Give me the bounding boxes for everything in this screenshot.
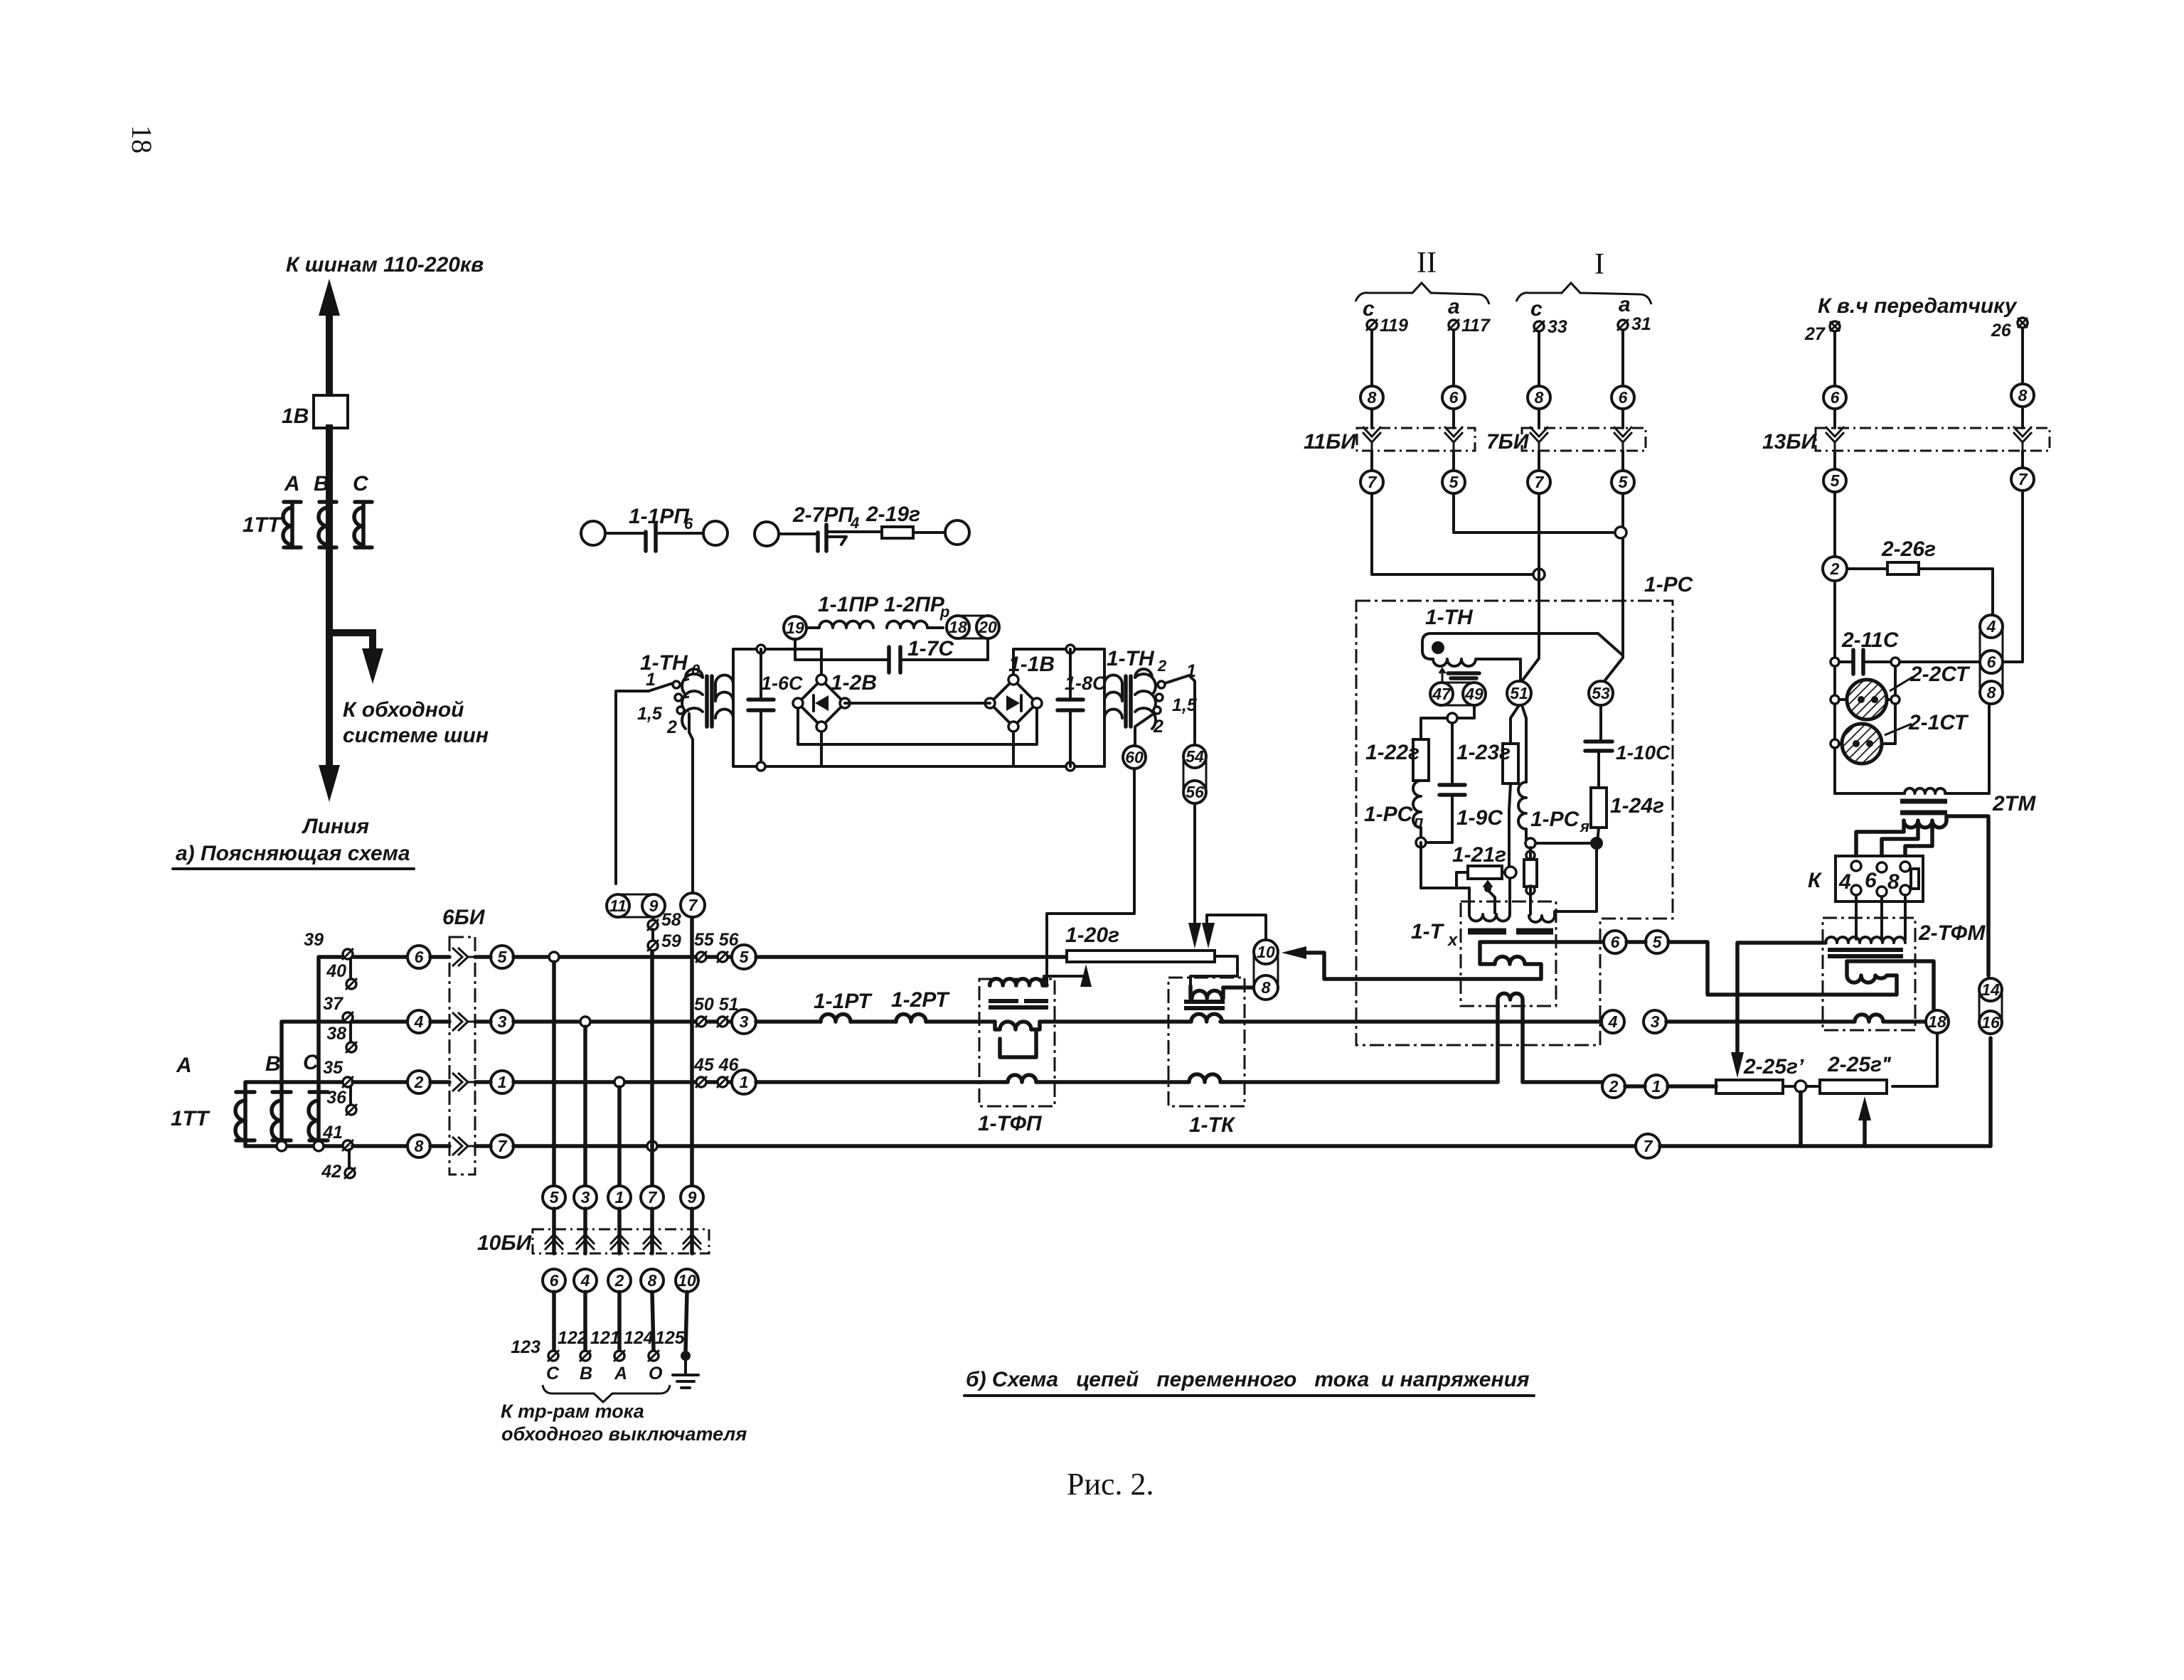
svg-text:124: 124 [624, 1328, 654, 1348]
terminal 7 (col119) [1370, 451, 1373, 471]
node row4 col7 [647, 1141, 657, 1151]
terminal 7 (6БИ row4) [491, 1135, 513, 1157]
wire terminal 6 to cap line [1900, 660, 1980, 663]
wire row3 right [756, 1080, 1602, 1084]
node row2 drop [580, 1017, 590, 1027]
svg-text:8: 8 [648, 1271, 657, 1290]
svg-text:37: 37 [323, 994, 343, 1014]
terminal 4 (10БИ low) [574, 1269, 597, 1292]
svg-text:11БИ: 11БИ [1304, 430, 1357, 454]
resistor 1-23г [1456, 741, 1518, 783]
node row3 drop [614, 1077, 624, 1087]
terminal slashes 45 46 [693, 1055, 740, 1088]
svg-text:2-ТФМ: 2-ТФМ [1918, 921, 1986, 945]
wire row3 left [353, 1080, 407, 1084]
current transformer 1ТТ phase C [354, 502, 372, 547]
svg-text:6: 6 [1619, 388, 1628, 407]
svg-text:122: 122 [558, 1328, 587, 1348]
svg-text:13БИ: 13БИ [1762, 430, 1818, 454]
transformer 2-ТФМ core [1828, 950, 1903, 956]
transformer 1-ТН2 [1104, 649, 1156, 766]
transformer 1-ТФП core [989, 1001, 1048, 1007]
terminal 6 (6БИ row1) [407, 946, 430, 968]
wire 19 stub [794, 639, 797, 660]
wire 2 down left column [1833, 581, 1836, 793]
wire row2 left [353, 1020, 407, 1024]
terminals 4 6 8 [1980, 615, 2003, 704]
wire inner low rail [798, 708, 1037, 744]
svg-text:1-РС: 1-РС [1364, 803, 1414, 826]
svg-text:33: 33 [1548, 317, 1567, 337]
svg-text:123: 123 [511, 1337, 540, 1357]
terminal 60 [1123, 746, 1146, 769]
transformer 1-ТН0 [682, 649, 733, 766]
arrowhead down (Линия) [319, 765, 340, 802]
arrow into terminal 10 [1282, 946, 1306, 959]
svg-text:38: 38 [326, 1024, 346, 1044]
svg-text:54: 54 [1186, 747, 1204, 766]
transformer 1-ТН [1422, 633, 1598, 683]
svg-text:10: 10 [678, 1271, 696, 1290]
svg-text:4: 4 [1986, 617, 1996, 636]
svg-text:5: 5 [1449, 473, 1459, 491]
svg-text:125: 125 [655, 1328, 686, 1348]
svg-text:х: х [1447, 931, 1459, 950]
svg-text:а: а [1448, 295, 1460, 319]
terminal slashes 55 56 [694, 930, 740, 963]
svg-text:49: 49 [1464, 685, 1483, 703]
terminal 8 (10БИ low) [641, 1269, 664, 1292]
wires 10БИ to bottom terminals [554, 1292, 687, 1351]
taps 1 1,5 2 of 1-ТН0 [637, 670, 689, 737]
svg-text:С: С [546, 1364, 560, 1384]
svg-text:О: О [649, 1364, 663, 1384]
svg-text:1-22г: 1-22г [1365, 741, 1419, 764]
svg-text:с: с [1363, 297, 1375, 321]
wire from tap 2 down to 7 [689, 714, 693, 894]
transformer 1-ТФП low winding [1004, 1075, 1040, 1082]
transformer 1-ТК low winding [1186, 1074, 1224, 1082]
terminal 3 (row2R) [1644, 1010, 1666, 1033]
svg-text:8: 8 [1987, 683, 1996, 702]
svg-text:2-26г: 2-26г [1881, 537, 1936, 561]
terminals 18 20 [947, 616, 999, 638]
svg-text:27: 27 [1804, 324, 1826, 344]
inductor 1-1ПР [806, 621, 873, 628]
svg-text:2: 2 [1609, 1077, 1619, 1096]
node left col at cap [1831, 658, 1839, 666]
contact block К [1808, 856, 1923, 901]
svg-text:36: 36 [326, 1088, 347, 1108]
terminal 2 (row3R) [1602, 1075, 1625, 1098]
svg-text:55 56: 55 56 [694, 930, 740, 950]
wire right link [1894, 666, 1897, 744]
terminal slashes 39/40 [304, 930, 357, 990]
current transformer bypass phase C [309, 1092, 328, 1146]
transformer 1-ТК box [1168, 978, 1245, 1106]
wire junction dot left to aux resistor [1538, 842, 1592, 845]
svg-text:6: 6 [1987, 653, 1996, 671]
svg-text:9: 9 [649, 897, 659, 915]
svg-text:1-2В: 1-2В [831, 671, 877, 695]
svg-text:1-7С: 1-7С [907, 637, 954, 660]
svg-text:2: 2 [1830, 560, 1840, 578]
svg-text:2-7РП: 2-7РП [792, 503, 854, 527]
taps 1 1,5 2 of 1-ТН2 [1153, 661, 1198, 737]
terminal 123 [511, 1337, 559, 1361]
svg-text:1-23г: 1-23г [1456, 741, 1511, 764]
wire РСя bottom to junction dot [1526, 839, 1592, 843]
svg-text:5: 5 [550, 1188, 560, 1207]
svg-text:2: 2 [666, 717, 677, 737]
terminal 2 (6БИ row3) [407, 1071, 430, 1093]
terminal 1 (6БИ row3) [491, 1071, 513, 1093]
wire junction dot down to right primary [1555, 850, 1597, 916]
wire 2ТМ secondary leads to К box [1856, 820, 1904, 856]
wire row4R to right corner [1660, 1144, 1991, 1148]
svg-text:51: 51 [1510, 684, 1528, 702]
svg-text:1-ТК: 1-ТК [1189, 1113, 1236, 1137]
wire CT A riser to row3 [245, 1082, 348, 1092]
svg-text:5: 5 [1653, 933, 1663, 951]
terminal 2 [1823, 557, 1847, 581]
svg-text:8: 8 [1262, 978, 1271, 997]
terminal 1 (row3) [732, 1070, 756, 1094]
svg-text:1-РС: 1-РС [1530, 808, 1580, 831]
svg-text:II: II [1417, 247, 1437, 279]
transformer 1-Тх core [1468, 929, 1553, 935]
svg-text:1: 1 [498, 1073, 507, 1091]
terminal 5 (col27) [1833, 451, 1836, 469]
transformer 1-Тх primary right [1529, 916, 1555, 922]
wire row1 (5 to 1-20г) [513, 955, 733, 959]
wire outer bottom rail [733, 765, 1104, 768]
svg-text:56: 56 [1186, 783, 1204, 801]
inductor 1-РСп [1364, 781, 1424, 842]
svg-text:С: С [353, 472, 369, 496]
terminals 14 16 [1979, 978, 2002, 1034]
node junction between 2-25г [1795, 1081, 1806, 1092]
wire CT commons to row4 [245, 1144, 348, 1148]
svg-text:40: 40 [326, 961, 346, 981]
svg-text:1: 1 [615, 1188, 624, 1207]
wire col119 to junction on col33 [1372, 493, 1533, 574]
svg-text:20: 20 [978, 618, 997, 636]
resistor 2-26г [1847, 537, 1993, 614]
svg-text:с: с [1530, 297, 1543, 321]
svg-text:1-ТН: 1-ТН [1107, 647, 1155, 670]
svg-text:5: 5 [740, 948, 750, 966]
arrowhead up [319, 279, 340, 316]
test block 13БИ [1762, 407, 2050, 454]
svg-text:14: 14 [1981, 980, 2000, 999]
terminal 5 (row1) [732, 945, 756, 969]
node junction col33 [1533, 569, 1545, 580]
wire col 117 [1452, 330, 1455, 386]
wire 20 stub [986, 638, 989, 660]
wire between РТ [851, 1020, 896, 1024]
transformer 2-ТФМ low winding on row2 [1823, 1015, 1925, 1022]
svg-text:1ТТ: 1ТТ [171, 1107, 211, 1130]
svg-text:26: 26 [1991, 321, 2012, 341]
svg-text:2-25гʺ: 2-25гʺ [1827, 1053, 1892, 1076]
wire 10БИ column 5 [552, 962, 556, 1186]
svg-text:1-1РП: 1-1РП [629, 505, 690, 528]
wire 1-23г down to 1-21г right terminal [1509, 783, 1511, 867]
wire 51 to РСя [1522, 705, 1526, 782]
wire row2 to 1-1РТ [756, 1020, 821, 1024]
terminal 5 (col117) [1452, 451, 1455, 471]
wire junction down to 1-9С [1451, 723, 1454, 785]
node РСп bottom [1416, 838, 1426, 847]
svg-text:Рис. 2.: Рис. 2. [1067, 1467, 1154, 1502]
wire 1-21г left lead [1456, 872, 1468, 888]
svg-text:1-ТН: 1-ТН [1425, 606, 1474, 629]
svg-text:31: 31 [1631, 314, 1651, 334]
svg-text:I: I [1594, 248, 1604, 281]
svg-text:41: 41 [322, 1123, 343, 1143]
terminals 10 8 [1254, 940, 1278, 1000]
svg-text:1-2ПР: 1-2ПР [884, 593, 945, 616]
terminal 18 [1926, 1010, 1949, 1033]
branch wire to bypass bus [329, 633, 373, 661]
terminal 7 (col26) [2021, 451, 2024, 468]
wire row3 [513, 1080, 732, 1084]
svg-text:б) Схема цепей переменного: б) Схема цепей переменного тока и напряж… [966, 1368, 1530, 1391]
wire 16 down to bottom row [1988, 1038, 1993, 1146]
wire 54-56 column down with arrow into 1-20г [1193, 806, 1196, 924]
svg-text:К обходной: К обходной [343, 698, 464, 722]
svg-text:3: 3 [740, 1012, 749, 1031]
svg-text:А: А [284, 472, 300, 496]
resistor 2-19г [865, 503, 969, 545]
transformer 1-Тх box [1461, 901, 1556, 1006]
node cap right [1891, 658, 1900, 666]
terminal 125 [655, 1328, 691, 1361]
svg-text:7: 7 [1644, 1137, 1653, 1155]
svg-text:7: 7 [1535, 473, 1545, 491]
resistor 1-22г [1365, 739, 1429, 781]
bus below breaker (wire) [326, 428, 333, 782]
resistor 2-25г" [1783, 1053, 1892, 1093]
terminal 5 (row5R) [1646, 931, 1668, 953]
wire row2R into 2-ТФМ [1666, 1020, 1823, 1024]
svg-text:58: 58 [661, 910, 681, 930]
transformer 2-ТФМ box [1823, 918, 1915, 1030]
svg-text:А: А [614, 1364, 627, 1384]
wire row4 left [353, 1144, 407, 1148]
svg-text:10: 10 [1257, 943, 1275, 961]
relay 1-РС dash-dot outline [1356, 601, 1673, 1045]
transformer 1-Тх primary left [1469, 879, 1510, 921]
contact 2-7РПч [755, 503, 882, 551]
wire tap2 down to 60 [1135, 714, 1154, 746]
terminal 8 (col119) [1360, 386, 1383, 409]
svg-text:К шинам 110-220кв: К шинам 110-220кв [286, 253, 484, 277]
transformer 1-Тх tertiary [1498, 993, 1523, 1082]
svg-text:3: 3 [1651, 1012, 1660, 1031]
svg-text:В: В [580, 1364, 592, 1384]
svg-text:8: 8 [415, 1137, 424, 1155]
terminal ø33 [1533, 317, 1567, 337]
svg-text:1-ТФП: 1-ТФП [978, 1112, 1043, 1135]
terminal ø31 [1617, 314, 1651, 334]
terminal 3 (row2) [732, 1010, 756, 1034]
terminal 10 (10БИ low) [676, 1269, 698, 1292]
svg-text:3: 3 [498, 1012, 507, 1031]
terminal 124 [624, 1328, 659, 1361]
terminal 51 [1507, 681, 1531, 705]
svg-text:7: 7 [688, 896, 698, 914]
terminal 8 (6БИ row4) [407, 1135, 430, 1157]
wire row4 long [513, 1144, 1636, 1148]
terminal slashes 41/42 [321, 1123, 356, 1182]
transformer 2ТМ [1900, 704, 2036, 828]
transformer 2-ТФМ primary [1826, 937, 1905, 943]
terminal 53 [1589, 681, 1613, 705]
terminal 8 (col33) [1528, 386, 1550, 409]
svg-text:1,5: 1,5 [637, 704, 663, 724]
svg-text:3: 3 [581, 1188, 590, 1207]
svg-text:39: 39 [304, 930, 324, 950]
node open circle at РСя bottom [1525, 838, 1535, 848]
svg-text:А: А [176, 1054, 192, 1077]
svg-text:4: 4 [1608, 1012, 1618, 1031]
svg-text:системе шин: системе шин [343, 724, 489, 747]
svg-text:60: 60 [1125, 748, 1144, 766]
wire 10БИ column 7 [650, 950, 654, 1186]
wire 51 to 1-23г [1511, 705, 1519, 744]
wire col 33 [1538, 331, 1540, 386]
wires К box down to 2-ТФМ primary [1856, 895, 1905, 939]
wire row2 through to 1-ТК and right [1040, 1020, 1602, 1024]
svg-text:обходного выключателя: обходного выключателя [501, 1423, 747, 1445]
wire 49 to junction [1456, 705, 1474, 718]
svg-text:2: 2 [614, 1271, 624, 1290]
terminals 47 49 [1430, 683, 1486, 705]
terminal 3 (10БИ) [574, 1186, 597, 1209]
transformer 1-Тх secondary [1301, 942, 1612, 979]
terminal 2 (10БИ low) [608, 1269, 631, 1292]
wire 2-ТФМ primary left lead to 2-25г' arrow [1737, 943, 1826, 1056]
svg-text:7: 7 [498, 1137, 508, 1155]
terminal 4 (row2R) [1602, 1010, 1624, 1033]
wire 1-20г right end down to 1-ТК top winding [1190, 956, 1237, 986]
svg-text:8: 8 [1368, 388, 1377, 407]
svg-text:18: 18 [949, 618, 967, 636]
svg-text:5: 5 [1831, 471, 1841, 490]
wire РСп/9С bottom tie [1421, 841, 1452, 844]
ground [673, 1356, 698, 1388]
wire row2 (3 to 1-ТФП etc) [513, 1020, 732, 1024]
svg-text:6: 6 [1611, 933, 1620, 951]
brace II [1355, 283, 1489, 304]
svg-text:8: 8 [1887, 870, 1900, 894]
svg-text:5: 5 [1619, 473, 1629, 491]
terminal 7 (row4R) [1636, 1134, 1660, 1158]
transformer 1-ТК core [1184, 1002, 1225, 1008]
capacitor 1-9С [1439, 785, 1503, 842]
test block 11БИ [1304, 409, 1475, 454]
capacitor 1-7С [795, 637, 988, 673]
wire bridge bottom stubs [821, 732, 1013, 766]
svg-text:119: 119 [1380, 316, 1408, 336]
svg-text:1-24г: 1-24г [1610, 794, 1664, 818]
svg-text:6: 6 [550, 1271, 559, 1290]
wire 60 column down [1047, 769, 1134, 985]
terminal 6 (col31) [1612, 386, 1634, 409]
svg-text:а) Поясняющая схема: а) Поясняющая схема [176, 842, 410, 865]
terminal 6 (col117) [1442, 386, 1465, 409]
svg-text:1: 1 [1652, 1077, 1661, 1096]
wire row2 into 1-ТФП [926, 1020, 995, 1024]
test block 6БИ [430, 906, 491, 1175]
wire top rail [733, 648, 1104, 651]
svg-text:1-1ПР: 1-1ПР [818, 593, 879, 616]
terminal 19 [784, 616, 806, 639]
transformer 1-ТФП box [979, 979, 1055, 1106]
svg-text:1: 1 [740, 1073, 749, 1091]
wire col 119 [1370, 330, 1373, 386]
resistor 1-21г [1452, 843, 1516, 913]
brace under phases [543, 1385, 670, 1402]
svg-text:п: п [1414, 813, 1424, 830]
wire col31 down to 53 [1604, 493, 1623, 681]
terminal 7 (col33) [1538, 451, 1540, 471]
wire 10БИ column 1 [617, 1087, 622, 1186]
svg-text:1-1РТ: 1-1РТ [814, 990, 873, 1013]
node C common [314, 1141, 324, 1151]
inductor 1-2РТ [891, 988, 950, 1022]
svg-text:1-6С: 1-6С [761, 673, 803, 694]
svg-text:1-9С: 1-9С [1456, 806, 1503, 830]
svg-text:18: 18 [126, 125, 158, 154]
svg-text:В: В [314, 472, 329, 496]
svg-text:35: 35 [323, 1058, 343, 1078]
svg-text:8: 8 [2018, 386, 2028, 405]
capacitor 1-10С [1585, 705, 1671, 788]
terminals 54 56 [1183, 745, 1206, 803]
terminal 5 (col31) [1621, 451, 1624, 471]
terminal slashes 35/36 [323, 1058, 357, 1115]
svg-text:1В: 1В [282, 405, 309, 428]
svg-text:2: 2 [1157, 657, 1167, 675]
terminal 6 (row5R) [1604, 931, 1626, 953]
terminal 8 (col26) [2011, 384, 2034, 407]
circuit breaker 1В [314, 395, 348, 428]
terminal 5 (10БИ) [543, 1186, 565, 1209]
svg-text:1ТТ: 1ТТ [243, 513, 282, 537]
wire col26 down to 6 terminal [2003, 491, 2023, 662]
svg-text:Линия: Линия [302, 815, 369, 838]
transformer 1-ТФП mid winding with loop [995, 1022, 1040, 1057]
svg-text:6: 6 [415, 948, 424, 966]
current transformer bypass phase B [272, 1092, 291, 1146]
wire arrow up into 2-25г" [1863, 1115, 1867, 1146]
svg-text:47: 47 [1432, 685, 1451, 703]
contact 1-1РПб [581, 505, 728, 551]
svg-text:121: 121 [590, 1328, 620, 1348]
svg-text:1: 1 [646, 670, 656, 690]
wire 10БИ column 9 [690, 917, 694, 1186]
svg-text:1-8С: 1-8С [1065, 673, 1107, 694]
svg-text:2: 2 [414, 1073, 424, 1091]
svg-text:53: 53 [1592, 684, 1610, 702]
svg-text:2ТМ: 2ТМ [1992, 792, 2036, 815]
wire col26 [2021, 328, 2024, 384]
wire left chain into 1-Тх [1421, 842, 1469, 914]
svg-text:а: а [1619, 293, 1631, 316]
